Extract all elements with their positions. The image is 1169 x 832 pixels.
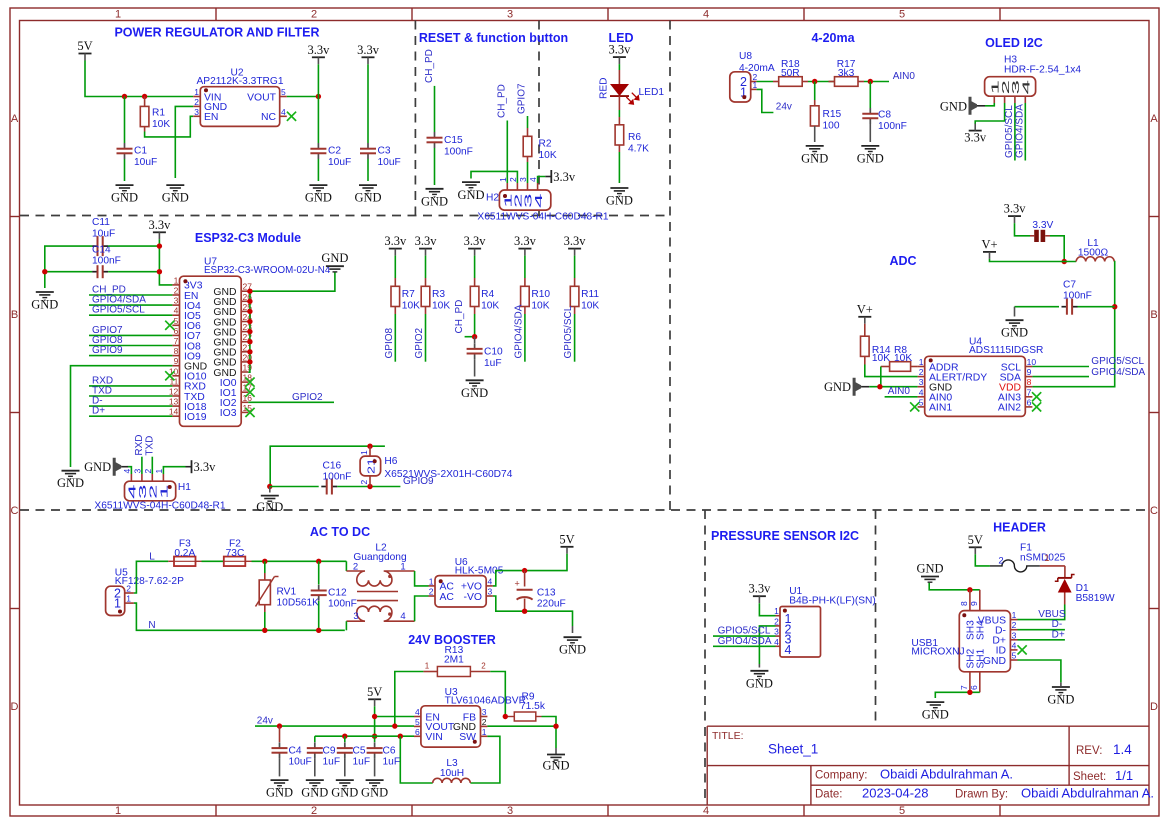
svg-text:R3: R3 <box>432 289 445 300</box>
svg-text:2023-04-28: 2023-04-28 <box>862 786 929 801</box>
wire GND flag to H3 pin1 <box>977 103 994 106</box>
junction at L3 leg VIN <box>398 734 403 739</box>
net label CH_PD at C15 <box>424 49 435 83</box>
svg-text:9: 9 <box>174 356 179 366</box>
svg-text:GND: GND <box>461 386 488 400</box>
svg-text:10uH: 10uH <box>440 768 464 779</box>
power symbol 3.3v at R3 <box>415 234 438 256</box>
resistor R7 10K <box>391 256 420 314</box>
connector U8 4-20mA <box>730 51 775 102</box>
svg-text:GND: GND <box>305 191 332 205</box>
net label GPIO5/SCL at U7 IO5 <box>89 305 172 316</box>
svg-text:10K: 10K <box>531 301 549 312</box>
svg-text:5V: 5V <box>968 533 983 547</box>
svg-text:GND: GND <box>354 191 381 205</box>
svg-text:2: 2 <box>919 367 924 377</box>
capacitor C2 10uF <box>310 64 351 181</box>
svg-text:5V: 5V <box>77 39 92 53</box>
section title HEADER <box>993 520 1046 534</box>
net label GPIO5/SCL at H3 <box>1004 105 1015 158</box>
wire R13 pin2 to FB line <box>490 672 505 717</box>
svg-text:TLV61046ADBVR: TLV61046ADBVR <box>445 695 526 706</box>
svg-text:AIN0: AIN0 <box>893 71 916 82</box>
no-connect X on U4 AIN1 <box>910 402 919 411</box>
svg-text:4: 4 <box>1021 80 1033 95</box>
svg-text:GND: GND <box>301 786 328 800</box>
wire VIN to L3 to SW <box>400 736 500 783</box>
wire GND flag to H1 pin4 <box>121 467 131 474</box>
svg-text:8: 8 <box>174 346 179 356</box>
svg-text:GPIO7: GPIO7 <box>517 83 528 114</box>
svg-text:OLED I2C: OLED I2C <box>985 36 1043 50</box>
svg-text:GND: GND <box>111 191 138 205</box>
power symbol 3.3v at LED <box>608 43 631 65</box>
net label 24v <box>776 102 792 113</box>
svg-text:10D561K: 10D561K <box>277 598 320 609</box>
svg-text:AP2112K-3.3TRG1: AP2112K-3.3TRG1 <box>196 76 283 87</box>
wire H2 pin2 to ground <box>471 171 517 183</box>
wire 3.3v rail to U7 3V3 pin <box>108 239 172 285</box>
svg-text:GPIO5/SCL: GPIO5/SCL <box>563 305 574 358</box>
capacitor C12 100nF <box>311 561 357 630</box>
svg-text:C: C <box>11 505 19 517</box>
svg-text:Obaidi Abdulrahman A.: Obaidi Abdulrahman A. <box>880 766 1013 781</box>
wire U7 pin9 GND to ground <box>71 366 173 467</box>
svg-text:10K: 10K <box>894 353 912 364</box>
svg-text:GND: GND <box>331 786 358 800</box>
net label TXD at H1 <box>144 436 155 474</box>
svg-text:2: 2 <box>998 556 1003 567</box>
capacitor C15 100nF <box>427 86 473 185</box>
svg-text:1500Ω: 1500Ω <box>1078 248 1109 259</box>
ground GND at C2 <box>305 185 332 205</box>
svg-text:3.3v: 3.3v <box>357 43 380 57</box>
power symbol 3.3v at R4 <box>464 234 487 256</box>
svg-text:R7: R7 <box>402 289 415 300</box>
wire 24v to VOUT <box>255 725 414 727</box>
junction at C5 VIN <box>342 734 347 739</box>
svg-text:5V: 5V <box>367 685 382 699</box>
svg-text:KF128-7.62-2P: KF128-7.62-2P <box>115 576 184 587</box>
wire CH_PD to H2 pin 1 <box>506 121 508 184</box>
svg-text:4: 4 <box>533 193 545 208</box>
junction at U3 GND R9 <box>553 724 558 729</box>
ground GND at U3 <box>542 748 569 773</box>
wire U5 pin2 to L rail <box>134 561 168 593</box>
svg-text:6: 6 <box>1027 397 1032 407</box>
svg-text:1/1: 1/1 <box>1115 768 1133 783</box>
ground GND at H2 <box>457 182 484 202</box>
wire GPIO5/SCL to U1 pin3 <box>713 635 776 637</box>
section title POWER REGULATOR AND FILTER <box>114 26 319 40</box>
section title PRESSURE SENSOR I2C <box>711 529 859 543</box>
section title 4-20ma <box>811 31 855 45</box>
power symbol 3.3v at H2 <box>545 170 576 184</box>
wire 3.3v to ferrite bead <box>1015 223 1031 236</box>
svg-text:14: 14 <box>169 407 179 417</box>
resistor R10 10K <box>521 256 551 314</box>
svg-text:3.3v: 3.3v <box>464 234 487 248</box>
svg-text:GND: GND <box>84 460 111 474</box>
net label CH_PD at H2 pin1 <box>497 84 508 118</box>
svg-text:C2: C2 <box>328 146 341 157</box>
wire H3 pin4 GPIO4/SDA <box>1024 103 1026 161</box>
section title RESET & function button <box>419 31 568 45</box>
svg-text:3: 3 <box>919 377 924 387</box>
connector U1 B4B-PH-K(LF)(SN) <box>774 586 876 657</box>
junction at RV1 top <box>262 559 267 564</box>
svg-text:EN: EN <box>204 112 218 123</box>
svg-text:GPIO4/SDA: GPIO4/SDA <box>1091 367 1145 378</box>
svg-text:GND: GND <box>457 188 484 202</box>
svg-text:3.3v: 3.3v <box>1004 202 1027 216</box>
power symbol 5V at F1 <box>968 533 983 555</box>
svg-text:4: 4 <box>174 306 179 316</box>
svg-text:C3: C3 <box>378 146 391 157</box>
junction at C7 right <box>1112 304 1117 309</box>
ground GND at C8 <box>857 146 884 166</box>
svg-text:4: 4 <box>919 387 924 397</box>
no-connect X on U7 IO1 <box>245 388 254 397</box>
ground GND under C16 rail <box>256 487 283 514</box>
ground GND at C4 <box>266 780 293 800</box>
diode D1 B5819W <box>1055 575 1115 605</box>
svg-text:1: 1 <box>1044 553 1049 564</box>
junction at EN <box>372 714 377 719</box>
wire shield top to pins 8 9 <box>929 583 980 590</box>
svg-text:R15: R15 <box>823 109 842 120</box>
junction at R15 <box>812 79 817 84</box>
ground GND at U7 pin9 <box>57 471 84 491</box>
svg-text:Company:: Company: <box>815 769 867 781</box>
ground GND at C9 <box>301 780 328 800</box>
svg-text:CH_PD: CH_PD <box>424 49 435 83</box>
wire L2 pin4 to U6 <box>415 596 429 621</box>
wire F1 to D1 <box>1040 566 1065 578</box>
svg-text:R1: R1 <box>152 108 165 119</box>
svg-text:10K: 10K <box>581 301 599 312</box>
USB connector USB1 MICROXNJ <box>911 590 1017 693</box>
svg-text:GPIO4/SDA: GPIO4/SDA <box>718 636 772 647</box>
net label D+ at U7 IO19 <box>89 406 172 417</box>
svg-text:GND: GND <box>1047 693 1074 707</box>
wire R8 to GND line <box>880 367 882 387</box>
ground GND at C13 <box>559 626 586 657</box>
svg-text:5: 5 <box>899 805 905 817</box>
svg-text:C7: C7 <box>1063 280 1076 291</box>
svg-text:6: 6 <box>174 326 179 336</box>
svg-text:3: 3 <box>518 177 528 182</box>
svg-text:AIN1: AIN1 <box>929 403 952 414</box>
svg-text:GND: GND <box>746 676 773 690</box>
svg-text:2: 2 <box>1012 620 1017 630</box>
power symbol 5V at C13 <box>559 532 574 554</box>
svg-text:1: 1 <box>425 662 430 671</box>
ground GND at USB shield bottom <box>922 702 949 722</box>
svg-text:R6: R6 <box>628 132 641 143</box>
junction at C4 <box>277 723 282 728</box>
wire GND flag to U4 GND pin <box>861 386 918 388</box>
svg-text:1uF: 1uF <box>323 757 341 768</box>
svg-text:L: L <box>149 551 155 562</box>
svg-text:GPIO9: GPIO9 <box>92 345 123 356</box>
resistor R18 50R <box>773 59 808 86</box>
ferrite bead FB 3.3V <box>1030 220 1054 242</box>
svg-text:1: 1 <box>114 597 121 611</box>
svg-text:1uF: 1uF <box>383 757 401 768</box>
svg-text:4: 4 <box>785 643 792 657</box>
svg-text:RXD: RXD <box>134 434 145 455</box>
svg-text:Sheet:: Sheet: <box>1073 771 1106 783</box>
svg-text:9: 9 <box>1027 367 1032 377</box>
wire H3 pin2 to 3.3v <box>975 103 1004 124</box>
svg-text:C: C <box>1150 505 1158 517</box>
capacitor C1 10uF <box>117 97 158 182</box>
wire D1 to VBUS <box>1018 605 1065 620</box>
svg-text:4-20ma: 4-20ma <box>811 31 855 45</box>
ground flag GND at H3 pin1 <box>940 97 977 115</box>
title block <box>707 726 1149 805</box>
svg-text:GPIO8: GPIO8 <box>384 327 395 358</box>
svg-text:4.7K: 4.7K <box>628 144 649 155</box>
svg-text:R11: R11 <box>581 289 599 300</box>
no-connect X on U7 IO10 <box>165 371 174 380</box>
junction at C14 right <box>157 269 162 274</box>
junction at H6 pin2 <box>367 484 372 489</box>
svg-text:5: 5 <box>1012 651 1017 661</box>
section title AC TO DC <box>310 525 370 539</box>
svg-text:B5819W: B5819W <box>1076 593 1115 604</box>
wire U4 SDA to GPIO4/SDA <box>1032 376 1089 378</box>
svg-text:8: 8 <box>959 601 969 606</box>
junction at C8 <box>868 79 873 84</box>
power symbol V+ at L1 <box>981 237 997 259</box>
svg-text:C13: C13 <box>537 588 556 599</box>
wire C16 H6 top rail <box>270 446 385 486</box>
ground GND at U2 <box>162 185 189 205</box>
svg-text:2: 2 <box>482 717 487 727</box>
resistor R14 10K <box>861 324 891 365</box>
svg-text:MICROXNJ: MICROXNJ <box>911 647 964 658</box>
fuse F3 0.2A <box>168 539 201 567</box>
svg-text:H2: H2 <box>486 193 499 204</box>
svg-text:GND: GND <box>31 298 58 312</box>
svg-text:3: 3 <box>774 627 779 637</box>
net label GPIO8 at U7 IO8 <box>89 335 172 346</box>
svg-text:1: 1 <box>400 562 405 573</box>
svg-text:N: N <box>148 620 155 631</box>
svg-text:H6: H6 <box>384 456 397 467</box>
svg-text:GND: GND <box>266 786 293 800</box>
svg-text:3: 3 <box>174 296 179 306</box>
svg-text:4: 4 <box>703 9 709 21</box>
connector H1 X6511WVS-04H-C60D48-R1 <box>94 469 226 512</box>
net label TXD at U7 <box>89 386 172 397</box>
svg-text:10: 10 <box>1027 357 1037 367</box>
transformer L2 Guangdong <box>346 543 414 631</box>
junction at C12 top <box>316 559 321 564</box>
svg-text:1: 1 <box>482 727 487 737</box>
wire VOUT to 3.3v rail <box>287 96 319 98</box>
power symbol 3.3v at H1 <box>186 460 217 474</box>
no-connect X on U4 AIN2 <box>1032 402 1041 411</box>
wire H3 pin3 GPIO5/SCL <box>1014 103 1016 161</box>
svg-text:ESP32-C3-WROOM-02U-N4: ESP32-C3-WROOM-02U-N4 <box>204 265 331 276</box>
svg-text:3: 3 <box>488 587 493 597</box>
svg-text:C15: C15 <box>444 135 463 146</box>
junction at RV1 bottom <box>262 628 267 633</box>
svg-text:PRESSURE SENSOR I2C: PRESSURE SENSOR I2C <box>711 529 859 543</box>
svg-text:A: A <box>1150 113 1158 125</box>
svg-text:4: 4 <box>774 637 779 647</box>
junction at C16 left <box>267 484 272 489</box>
net label GPIO4/SDA at U4 <box>1091 367 1145 378</box>
svg-text:1: 1 <box>919 357 924 367</box>
svg-text:Sheet_1: Sheet_1 <box>768 742 818 757</box>
svg-text:5: 5 <box>919 397 924 407</box>
wire and net label GPIO8 at R7 <box>384 314 396 362</box>
svg-text:3k3: 3k3 <box>838 68 855 79</box>
svg-text:3.3v: 3.3v <box>307 43 330 57</box>
net label D+ at USB <box>1052 629 1065 640</box>
no-connect X on U7 IO6 <box>165 321 174 330</box>
svg-text:10uF: 10uF <box>134 157 157 168</box>
wire 3.3v to U1 pin1 <box>759 603 775 616</box>
no-connect X on U4 AIN3 <box>1032 392 1041 401</box>
resistor R6 4.7K <box>615 125 649 183</box>
svg-text:B: B <box>1150 309 1157 321</box>
svg-text:GND: GND <box>162 191 189 205</box>
svg-text:V+: V+ <box>857 302 873 316</box>
svg-text:13: 13 <box>169 397 179 407</box>
inductor L1 1500ohm <box>1076 238 1114 262</box>
boost IC U3 TLV61046ADBVR <box>414 687 526 747</box>
svg-text:B4B-PH-K(LF)(SN): B4B-PH-K(LF)(SN) <box>789 596 876 607</box>
svg-text:Obaidi Abdulrahman A.: Obaidi Abdulrahman A. <box>1021 786 1154 801</box>
svg-text:Date:: Date: <box>815 789 843 801</box>
net label GPIO7 at U7 IO7 <box>89 325 172 336</box>
svg-text:C10: C10 <box>484 347 503 358</box>
svg-text:3.3v: 3.3v <box>194 460 217 474</box>
wire F3 to F2 <box>202 560 224 562</box>
svg-text:1: 1 <box>1012 610 1017 620</box>
svg-text:1uF: 1uF <box>353 757 371 768</box>
svg-text:6: 6 <box>969 685 979 690</box>
net label D- at USB <box>1052 619 1063 630</box>
net label AIN0 at U4 <box>888 386 911 397</box>
svg-text:GND: GND <box>256 500 283 514</box>
wire H1 pin1 to 3.3v <box>163 467 185 474</box>
svg-text:GND: GND <box>542 759 569 773</box>
net label GPIO4/SDA at H3 <box>1015 104 1026 158</box>
resistor R3 10K <box>421 256 450 314</box>
svg-text:3.3v: 3.3v <box>748 582 771 596</box>
power symbol 3.3v at C3 <box>357 43 380 65</box>
svg-text:GND: GND <box>57 476 84 490</box>
ground GND at R15 <box>801 146 828 166</box>
svg-text:GPIO4/SDA: GPIO4/SDA <box>513 304 524 358</box>
svg-text:TITLE:: TITLE: <box>712 730 744 742</box>
wire USB GND pin to ground <box>1018 660 1061 682</box>
power symbol 3.3v at R7 <box>384 234 407 256</box>
wire L2 pin1 to U6 <box>415 571 429 586</box>
svg-text:C4: C4 <box>289 746 302 757</box>
svg-text:7: 7 <box>1027 387 1032 397</box>
wire H2 pin4 to 3.3v <box>538 177 546 184</box>
svg-text:+: + <box>515 579 520 589</box>
capacitor C14 100nF <box>92 245 121 279</box>
wire USB D- to label <box>1018 629 1065 631</box>
svg-text:5: 5 <box>415 717 420 727</box>
svg-text:GND: GND <box>983 656 1006 667</box>
svg-text:nSMD025: nSMD025 <box>1020 553 1066 564</box>
svg-text:9: 9 <box>969 601 979 606</box>
svg-text:1: 1 <box>359 450 369 455</box>
svg-text:2: 2 <box>481 662 486 671</box>
wire 5V to F1 <box>975 554 990 566</box>
resistor R4 10K <box>470 256 499 314</box>
svg-text:LED1: LED1 <box>639 87 665 98</box>
power symbol 3.3v at U1 <box>748 582 771 604</box>
capacitor C9 1uF <box>307 736 340 776</box>
svg-text:VIN: VIN <box>425 732 442 743</box>
svg-text:7: 7 <box>174 336 179 346</box>
junction at C12 bottom <box>316 628 321 633</box>
net label GPIO5/SCL at U4 <box>1091 356 1144 367</box>
wire R18 to R17 <box>808 81 835 83</box>
svg-text:4: 4 <box>400 611 405 622</box>
svg-text:ADC: ADC <box>889 254 916 268</box>
wire and net label GPIO4/SDA at R10 <box>513 304 525 361</box>
svg-text:Drawn By:: Drawn By: <box>955 789 1008 801</box>
svg-text:71.5k: 71.5k <box>520 701 546 712</box>
ground GND above U7 right <box>321 251 348 272</box>
svg-text:4: 4 <box>415 707 420 717</box>
svg-text:3.3v: 3.3v <box>564 234 587 248</box>
svg-text:-VO: -VO <box>464 592 482 603</box>
junction at VIN 5V <box>372 734 377 739</box>
wire ferrite to L1 junction <box>1050 236 1064 262</box>
svg-text:GND: GND <box>857 151 884 165</box>
junction at C14 left <box>42 269 47 274</box>
no-connect X on U7 IO0 <box>245 378 254 387</box>
svg-text:1: 1 <box>154 469 164 474</box>
svg-text:GND: GND <box>361 786 388 800</box>
svg-text:2: 2 <box>508 177 518 182</box>
svg-text:100nF: 100nF <box>878 121 907 132</box>
section title OLED I2C <box>985 36 1043 50</box>
svg-text:3.3v: 3.3v <box>964 131 987 145</box>
section title LED <box>609 31 634 45</box>
section title ESP32-C3 Module <box>195 231 301 245</box>
wire L1 to C7 rail and VDD <box>1032 262 1114 387</box>
ground GND at USB shield top <box>916 562 943 583</box>
svg-text:24v: 24v <box>776 102 792 113</box>
fuse F1 nSMD025 <box>990 543 1066 572</box>
svg-text:A: A <box>11 113 19 125</box>
svg-text:2M1: 2M1 <box>444 655 464 666</box>
svg-text:V+: V+ <box>981 237 997 251</box>
svg-text:HDR-F-2.54_1x4: HDR-F-2.54_1x4 <box>1004 64 1081 75</box>
net label GPIO4/SDA at U7 IO4 <box>89 295 172 306</box>
svg-text:GND: GND <box>606 194 633 208</box>
svg-text:D: D <box>1150 701 1158 713</box>
wire U6 +VO to 5V rail <box>493 554 567 586</box>
wire GPIO4/SDA to U1 pin4 <box>713 645 776 647</box>
net label 24v at booster <box>257 716 273 727</box>
svg-text:1: 1 <box>126 594 131 604</box>
wire R1 to U2 EN <box>145 116 194 137</box>
